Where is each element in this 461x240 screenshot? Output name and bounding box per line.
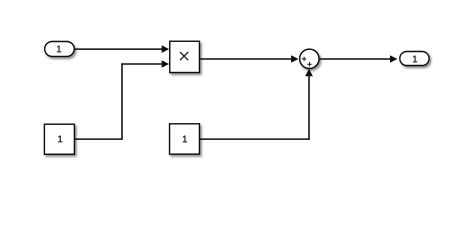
constant block C1 (bottom-left square) [44, 124, 74, 154]
arrowhead of wire W3 at Sum west input [291, 55, 298, 63]
wire W2: Constant C1 to Product input 2 (horizontal segment from C1) [75, 138, 123, 140]
value label "1" of outport Out1 [413, 56, 417, 63]
wire W4 vertical segment up to Sum [308, 76, 310, 140]
plus sign for Sum south input [307, 62, 311, 66]
constant block C2 (bottom-middle square) [170, 124, 200, 154]
arrowhead of wire W5 at Outport Out1 [390, 55, 397, 63]
value label "1" of constant C1 [58, 136, 62, 143]
arrowhead of wire W1 at Product input 1 [162, 45, 169, 53]
wire W3: Product output to Sum west input (horizontal segment) [200, 58, 291, 60]
plus sign for Sum west input [302, 57, 306, 61]
sum block S1 (circle) [300, 49, 319, 68]
product block U1 (square) [170, 41, 200, 72]
value label "1" of constant C2 [183, 136, 187, 143]
inport block In1 (oval) [45, 42, 74, 57]
wire W2 horizontal segment into Product input 2 [121, 63, 162, 65]
wire W1: In1 to Product input 1 (horizontal segment) [75, 48, 162, 50]
outport block Out1 (oval) [400, 52, 429, 66]
value label "1" of inport In1 [57, 46, 61, 53]
arrowhead of wire W4 at Sum south input [305, 69, 313, 76]
arrowhead of wire W2 at Product input 2 [162, 60, 169, 68]
multiply icon (x) inside product block U1 [180, 52, 188, 60]
wire W5: Sum output to Outport Out1 (horizontal segment) [320, 58, 391, 60]
wire W4: Constant C2 to Sum south input (horizontal segment from C2) [200, 138, 310, 140]
wire W2 vertical segment [121, 63, 123, 139]
